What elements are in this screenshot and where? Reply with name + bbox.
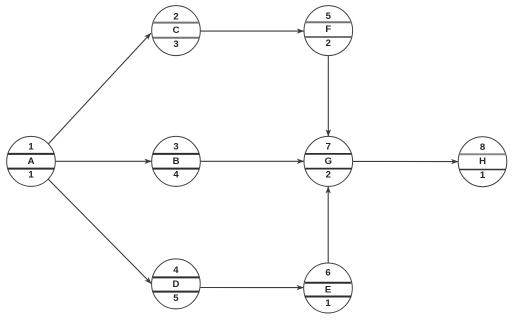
wire C-F — [200, 30, 303, 32]
node E — [304, 263, 353, 313]
svg-text:C: C — [173, 25, 180, 36]
svg-text:1: 1 — [28, 142, 34, 153]
svg-text:H: H — [479, 156, 486, 167]
wire A-D — [48, 179, 151, 284]
svg-text:3: 3 — [173, 39, 178, 50]
svg-text:3: 3 — [173, 142, 178, 153]
node A — [7, 136, 56, 186]
node C — [152, 6, 201, 56]
svg-text:1: 1 — [480, 170, 486, 181]
svg-text:F: F — [325, 24, 331, 35]
svg-text:A: A — [28, 156, 35, 167]
node F — [304, 6, 353, 56]
svg-text:G: G — [325, 156, 332, 167]
node G — [304, 136, 353, 186]
svg-text:1: 1 — [325, 298, 331, 309]
svg-text:D: D — [172, 279, 179, 290]
svg-text:5: 5 — [173, 293, 179, 304]
svg-text:6: 6 — [325, 268, 330, 279]
svg-text:1: 1 — [28, 170, 34, 181]
wire E-G — [327, 187, 329, 264]
svg-text:2: 2 — [326, 170, 331, 181]
wire A-B — [56, 160, 152, 162]
node D — [152, 259, 201, 309]
node B — [152, 136, 201, 186]
svg-text:5: 5 — [326, 11, 332, 22]
svg-text:4: 4 — [173, 265, 179, 276]
svg-text:E: E — [325, 284, 331, 295]
wire A-C — [48, 33, 151, 145]
wire F-G — [327, 56, 329, 136]
wire G-H — [353, 160, 458, 162]
svg-text:2: 2 — [326, 38, 331, 49]
svg-text:B: B — [173, 156, 180, 167]
wire D-E — [200, 287, 303, 289]
svg-text:7: 7 — [326, 142, 331, 153]
svg-text:8: 8 — [480, 142, 485, 153]
svg-text:4: 4 — [173, 170, 179, 181]
node H — [458, 137, 507, 187]
svg-text:2: 2 — [173, 11, 178, 22]
wire B-G — [200, 160, 303, 162]
